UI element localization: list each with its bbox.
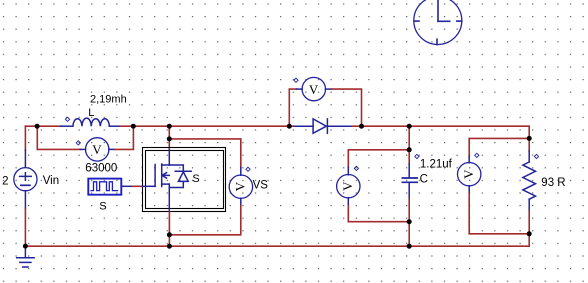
meter M4 (output voltage): [458, 163, 481, 186]
wire: cap bottom red to bus: [408, 199, 410, 247]
wire: source lead below box (red): [168, 212, 170, 247]
marker: meter M2 polarity: [294, 78, 298, 82]
wire: inductor left lead (blue): [61, 125, 73, 127]
marker: capacitor polarity: [415, 154, 419, 158]
svg-text:VS: VS: [253, 180, 269, 192]
svg-text:S: S: [99, 201, 106, 213]
meter M1 (inductor current, 63000): [86, 138, 109, 161]
svg-text:S: S: [192, 173, 199, 185]
wire: Vin top to bus (red part): [24, 126, 26, 150]
wire: capacitor riser red top: [408, 126, 410, 164]
marker: meter M1 polarity: [76, 141, 80, 145]
source tick: [162, 183, 170, 185]
wire: meter M2 right stub (blue): [325, 88, 331, 90]
source lead down: [168, 184, 170, 211]
marker: resistor polarity: [534, 154, 538, 158]
body tick with arrow: [162, 173, 169, 178]
wire: VS meter top stub (blue): [240, 168, 242, 176]
body diode triangle: [178, 172, 188, 182]
svg-text:2: 2: [2, 176, 8, 188]
svg-text:93 R: 93 R: [541, 177, 565, 189]
wire: cap meter bottom stub (blue): [347, 198, 349, 206]
drain lead up: [168, 150, 170, 165]
wire: pulse source right stub (blue): [122, 185, 133, 187]
svg-text:2,19mh: 2,19mh: [90, 94, 127, 106]
wire: meter M1 right stub (blue): [109, 148, 115, 150]
node H (drain / VS tap): [167, 136, 172, 141]
svg-text:1.21uf: 1.21uf: [420, 159, 453, 171]
ground: [17, 246, 34, 267]
wire: meter M1 to node B: [115, 126, 133, 149]
node: ground junction: [23, 244, 28, 249]
diode D1: [294, 119, 352, 133]
wire: cap meter loop bottom: [348, 206, 409, 222]
meter M2 (diode voltage): [302, 77, 325, 100]
voltage source V1 Vin: [14, 168, 37, 191]
node E (diode cathode junction): [359, 124, 364, 129]
meter VS (drain-source voltage): [229, 175, 252, 198]
wire: gate wire (red): [133, 185, 143, 187]
wire: node A to inductor (red): [37, 125, 61, 127]
wire: top-left bus to node A: [25, 125, 37, 127]
body diode loop top: [169, 165, 183, 171]
subcircuit box S (outer): [143, 148, 226, 212]
transistor Q1 (NMOS with body diode, inside box): [143, 150, 192, 212]
node G4 (cap on ground bus): [407, 244, 412, 249]
channel bar: [161, 164, 163, 187]
drain tick: [162, 164, 170, 166]
clock icon: [414, 0, 462, 45]
wire: meter M2 to node E (red): [332, 89, 362, 126]
wire: node E to top-right corner: [362, 126, 530, 138]
pulse source S: [88, 179, 121, 195]
wire: resistor bottom lead red: [528, 211, 530, 246]
wire: node D up to meter M2 (red): [289, 89, 296, 126]
node G (capacitor top junction): [407, 124, 412, 129]
wire: inductor to node B (red): [120, 125, 133, 127]
marker: output meter polarity: [475, 153, 479, 157]
svg-text:Vin: Vin: [43, 175, 59, 187]
wire: Vin bottom stub (blue): [24, 191, 26, 209]
wire: diode cathode to node E: [352, 125, 362, 127]
marker: cap meter polarity: [354, 166, 358, 170]
wire: output meter loop top: [469, 138, 529, 156]
svg-text:V: V: [340, 181, 355, 191]
node F (resistor top junction): [527, 136, 532, 141]
svg-text:V: V: [233, 181, 248, 191]
wire: Vin top stub (blue): [24, 150, 26, 167]
wire: output meter bottom stub (blue): [468, 186, 470, 193]
node G3 (cap meter tap bottom): [407, 219, 412, 224]
wire: meter M2 left stub (blue): [297, 88, 303, 90]
body diode loop bottom: [169, 182, 183, 188]
node D (diode anode junction): [287, 124, 292, 129]
wire: cap top lead (blue): [408, 164, 410, 177]
node C (drain top): [167, 124, 172, 129]
node J (source to ground bus): [167, 244, 172, 249]
wire: VS loop top: [169, 139, 241, 168]
svg-text:V: V: [92, 142, 102, 157]
svg-text:L: L: [88, 107, 94, 119]
wire: Vin bottom to ground node (red): [24, 209, 26, 246]
svg-text:V: V: [309, 82, 319, 97]
wire: VS loop bottom: [169, 206, 240, 235]
wire: ground bus: [25, 245, 529, 247]
wire: bus node B to node C: [133, 125, 169, 127]
wire: output meter loop bottom: [469, 193, 529, 234]
node I (VS loop bottom tap): [167, 232, 172, 237]
svg-text:V: V: [461, 169, 476, 179]
svg-text:63000: 63000: [85, 163, 117, 175]
marker: inductor polarity: [65, 117, 69, 121]
wire: VS meter bottom stub (blue): [240, 198, 242, 205]
wire: cap meter loop top: [348, 150, 409, 167]
capacitor C 1.21uf: [402, 178, 417, 182]
wire: cap bottom lead (blue): [408, 183, 410, 199]
wire: meter M1 left stub (blue): [80, 148, 85, 150]
subcircuit box S (inner): [146, 151, 224, 209]
wire: diode anode lead: [289, 125, 294, 127]
node A (inductor left junction): [35, 124, 40, 129]
meter M3 (capacitor voltage): [337, 175, 360, 198]
marker: VS meter polarity: [246, 167, 250, 171]
node B: [131, 124, 136, 129]
wire: inductor right lead (blue): [109, 125, 120, 127]
node K (resistor bottom junction): [527, 231, 532, 236]
svg-text:C: C: [420, 174, 428, 186]
gate bar: [154, 165, 156, 187]
inductor L 2,19mh: [73, 118, 110, 126]
wire: cap meter top stub (blue): [347, 167, 349, 175]
wire: bus node C to node D: [169, 125, 289, 127]
wire: drain riser red: [168, 126, 170, 150]
wire: resistor top lead red: [528, 138, 530, 151]
gate lead: [143, 185, 156, 187]
body diode cathode bar: [175, 170, 191, 172]
node G2 (cap meter tap top): [407, 147, 412, 152]
wire: node A down to meter M1 branch: [37, 126, 80, 149]
wire: output meter top stub (blue): [468, 157, 470, 163]
resistor R 93: [523, 151, 536, 211]
